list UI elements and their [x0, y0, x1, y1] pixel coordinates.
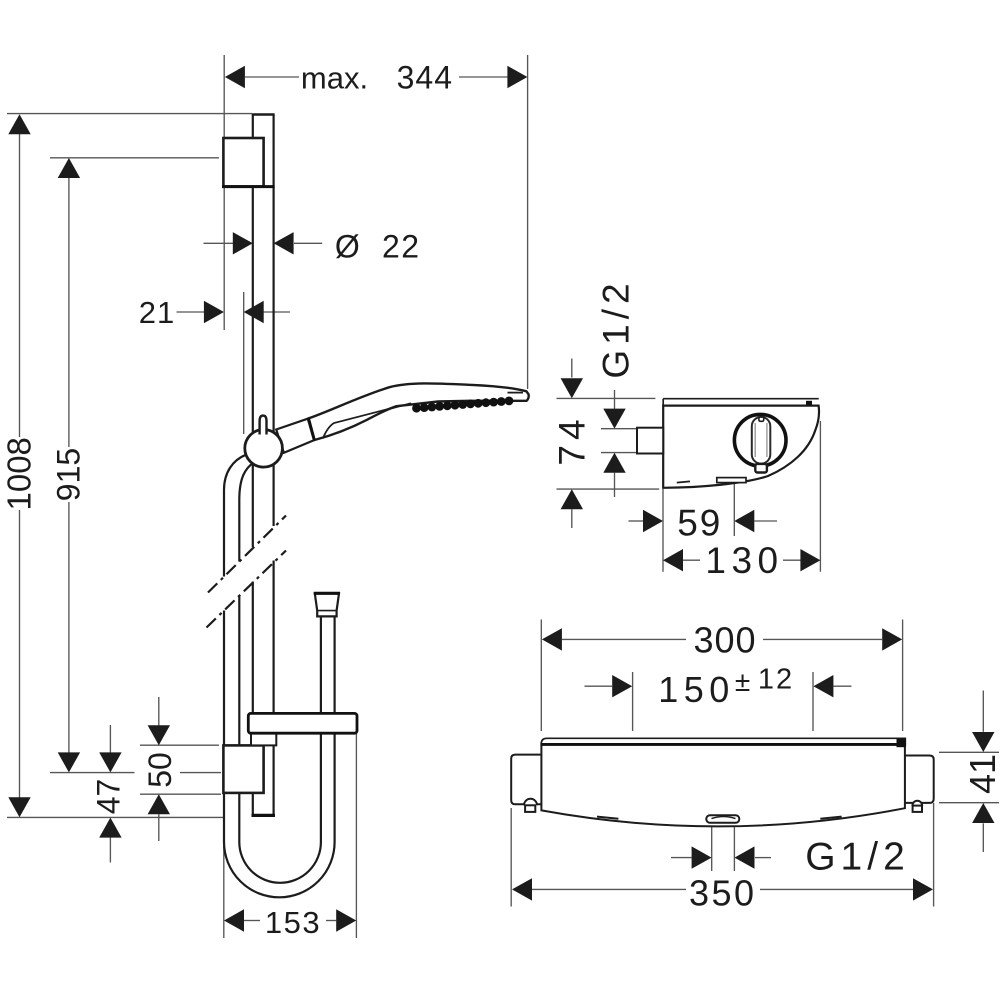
- svg-text:153: 153: [265, 905, 321, 940]
- svg-text:150: 150: [658, 669, 735, 710]
- svg-text:1008: 1008: [1, 437, 38, 510]
- svg-text:344: 344: [397, 60, 453, 96]
- svg-text:±: ±: [735, 666, 750, 697]
- svg-text:47: 47: [91, 779, 127, 815]
- svg-text:59: 59: [677, 503, 722, 544]
- svg-text:300: 300: [693, 620, 756, 661]
- svg-text:max.: max.: [301, 61, 368, 96]
- svg-text:Ø: Ø: [335, 228, 360, 264]
- svg-text:74: 74: [552, 414, 593, 465]
- svg-text:915: 915: [51, 448, 87, 501]
- svg-text:22: 22: [382, 228, 421, 264]
- svg-text:50: 50: [142, 752, 178, 788]
- svg-text:G1/2: G1/2: [596, 278, 637, 378]
- svg-text:350: 350: [689, 873, 757, 914]
- svg-text:G1/2: G1/2: [805, 836, 910, 879]
- svg-text:41: 41: [962, 754, 1000, 794]
- svg-text:12: 12: [758, 664, 794, 696]
- svg-text:21: 21: [139, 295, 175, 330]
- svg-text:130: 130: [705, 540, 783, 581]
